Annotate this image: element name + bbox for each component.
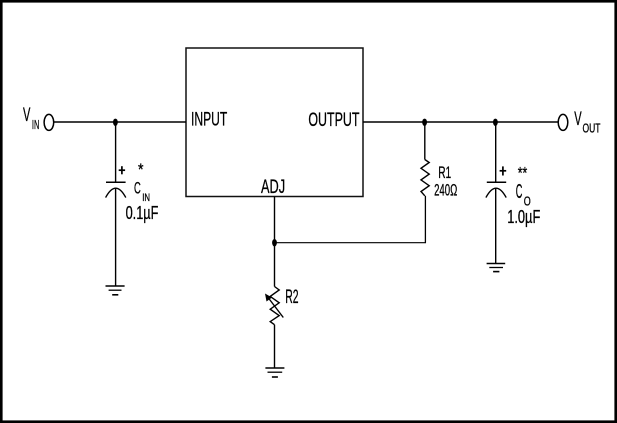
svg-text:C: C [134, 179, 141, 197]
polarity plus of CIN [119, 166, 125, 174]
resistor R1 [421, 160, 429, 196]
ground GND3 under R2 [265, 368, 284, 377]
label CO [516, 181, 531, 209]
wire node A down to CIN [115, 122, 117, 182]
polarity plus of CO [500, 166, 507, 175]
svg-text:OUT: OUT [583, 122, 601, 136]
ground GND2 under CO [487, 264, 506, 272]
svg-text:INPUT: INPUT [191, 110, 227, 131]
label VIN [23, 105, 39, 132]
wire ADJ node down to R2 [274, 243, 276, 287]
terminal VIN [44, 114, 54, 130]
svg-text:1.0µF: 1.0µF [507, 207, 540, 227]
wire CIN to ground [115, 189, 117, 286]
label VOUT [574, 109, 600, 136]
svg-text:V: V [23, 105, 31, 126]
svg-text:ADJ: ADJ [261, 177, 285, 198]
svg-text:C: C [516, 181, 523, 203]
wire R1 down to ADJ net [424, 196, 426, 243]
svg-text:**: ** [518, 164, 528, 183]
svg-text:0.1µF: 0.1µF [126, 203, 159, 223]
svg-text:*: * [138, 160, 144, 179]
wire node C down to CO [495, 122, 497, 182]
node B R1 junction [422, 119, 427, 126]
wire node B down to R1 [424, 122, 426, 160]
ground GND1 under CIN [106, 286, 125, 295]
wire VIN to INPUT [54, 121, 186, 123]
node D ADJ junction [272, 239, 277, 246]
svg-text:240Ω: 240Ω [434, 181, 457, 199]
node A input junction [113, 119, 118, 126]
capacitor CIN [106, 182, 126, 197]
label CIN [134, 179, 150, 203]
node C CO junction [493, 119, 498, 126]
wire ADJ node to R1 bottom [275, 242, 427, 244]
wire R2 to ground [274, 325, 276, 368]
resistor R2 variable [265, 287, 283, 325]
wire CO to ground [495, 189, 497, 264]
svg-text:IN: IN [32, 118, 39, 132]
wire ADJ pin down [274, 197, 276, 243]
svg-text:V: V [574, 109, 582, 130]
svg-text:R2: R2 [285, 286, 298, 308]
capacitor CO [486, 182, 506, 197]
regulator U1 body [186, 48, 363, 197]
svg-text:OUTPUT: OUTPUT [308, 110, 359, 131]
svg-text:R1: R1 [438, 164, 451, 182]
terminal VOUT [558, 114, 568, 130]
wire OUTPUT to VOUT [363, 121, 558, 123]
